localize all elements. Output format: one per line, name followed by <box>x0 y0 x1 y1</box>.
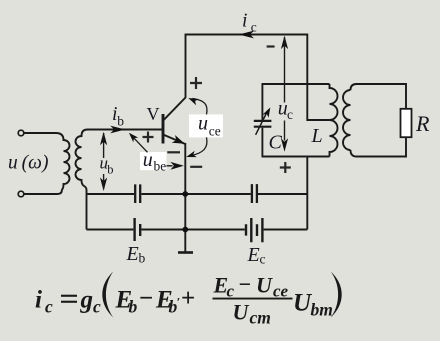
svg-text:b: b <box>117 114 124 129</box>
arrowhead ib (pointing right on base wire) <box>110 126 125 134</box>
svg-text:+: + <box>181 285 195 312</box>
formula left parenthesis <box>102 272 113 318</box>
svg-text:V: V <box>147 104 160 124</box>
capacitor C2 (collector bypass) <box>252 184 257 203</box>
svg-text:b: b <box>107 163 113 177</box>
svg-text:g: g <box>80 287 94 314</box>
wire: emitter down through rails to ground <box>184 143 186 252</box>
svg-text:u (ω): u (ω) <box>8 153 48 174</box>
arrowhead variable capacitor <box>263 107 271 117</box>
svg-text:−: − <box>239 272 252 297</box>
variable capacitor arrow shaft <box>256 111 268 135</box>
transistor Q1 emitter lead <box>163 135 185 145</box>
svg-text:C: C <box>269 132 283 154</box>
transformer T1 primary winding (with input wires) <box>24 133 69 194</box>
svg-text:i: i <box>35 287 42 314</box>
formula: i_c = g_c ( E_b - E_b' + (E_c - U_ce)/U_cm * U_bm ) <box>35 272 342 328</box>
svg-text:c: c <box>260 252 266 267</box>
inductor L winding <box>330 84 338 157</box>
u_ce curved arrow to collector <box>193 98 207 114</box>
transistor Q1 collector lead + top wire + tap wire to L <box>163 35 330 121</box>
u_c annotation line lower <box>284 121 286 141</box>
svg-text:c: c <box>45 297 53 317</box>
battery Ec (two cells) <box>246 218 262 242</box>
transformer T2 secondary winding <box>343 90 350 150</box>
variable capacitor C plates <box>254 121 272 127</box>
transistor Q1 base bar <box>162 114 165 144</box>
arrowhead u_b down <box>100 178 107 192</box>
minus sign at emitter (u_be -) <box>167 151 180 153</box>
svg-text:i: i <box>242 11 247 32</box>
tank box left edge below capacitor C <box>261 128 263 157</box>
plus sign at base (u_be +) <box>143 132 154 143</box>
svg-text:u: u <box>143 149 153 171</box>
fraction bar <box>213 298 293 300</box>
svg-text:L: L <box>311 125 323 147</box>
u_b annotation line upper <box>103 133 105 158</box>
svg-text:u: u <box>198 112 208 134</box>
svg-text:c: c <box>251 20 257 35</box>
transformer T1 secondary winding (with base wire to transistor) <box>76 130 163 230</box>
svg-text:c: c <box>93 297 101 317</box>
tank box left edge above capacitor C <box>261 84 263 120</box>
svg-text:ce: ce <box>209 123 221 138</box>
u_be arrow to base wire shaft <box>132 136 148 153</box>
wire: bottom rail (Eb to Ec) <box>141 229 244 231</box>
tank box top edge <box>262 83 330 85</box>
u_ce curved arrow to emitter <box>191 137 207 155</box>
plus sign below tank (u_c +) <box>280 162 291 173</box>
arrowhead u_be right <box>170 162 183 170</box>
wire: top bias rail (right of C2) <box>258 193 307 195</box>
ground symbol <box>178 251 193 254</box>
svg-text:R: R <box>415 111 430 136</box>
arrowhead u_c down <box>281 138 288 152</box>
wire: bottom rail (left of Eb) <box>87 229 134 231</box>
junction dot at emitter / top rail <box>182 191 188 197</box>
minus sign at top (u_c -) <box>267 45 275 47</box>
wire: top bias rail (left of C1) <box>87 193 135 195</box>
wire: tank bottom to bottom rail <box>306 157 308 230</box>
white label box u_be <box>140 152 167 170</box>
minus sign right of emitter (u_ce -) <box>190 166 202 168</box>
svg-text:′: ′ <box>177 295 181 310</box>
arrowhead u_c up <box>281 36 288 50</box>
tank box bottom edge <box>262 156 330 158</box>
svg-text:be: be <box>154 159 167 174</box>
svg-text:b: b <box>129 297 138 317</box>
svg-text:E: E <box>247 244 260 266</box>
wire: bottom rail (right of Ec) <box>264 229 308 231</box>
arrowhead u_b up <box>100 132 107 146</box>
u_c annotation line upper <box>284 37 286 103</box>
u_be right arrow shaft <box>163 165 173 167</box>
svg-text:bm: bm <box>311 300 333 320</box>
svg-text:U: U <box>256 273 273 298</box>
input terminal top <box>18 130 24 136</box>
svg-text:b: b <box>139 251 146 266</box>
arrowhead u_ce lower <box>186 151 197 157</box>
input terminal bottom <box>18 191 24 197</box>
svg-text:U: U <box>233 300 250 325</box>
svg-text:E: E <box>126 243 139 265</box>
formula right parenthesis <box>331 272 342 318</box>
plus sign at collector (u_ce +) <box>190 77 202 89</box>
capacitor C1 (base bypass) <box>135 184 140 203</box>
battery Eb <box>133 218 135 241</box>
white label box u_ce <box>189 114 223 137</box>
u_b annotation line lower <box>103 174 105 189</box>
wire: top bias rail (C1 to C2) <box>141 193 250 195</box>
junction dot at emitter / bottom rail <box>182 227 188 233</box>
arrowhead u_ce upper <box>188 98 199 105</box>
svg-text:cm: cm <box>250 308 271 328</box>
svg-text:c: c <box>287 107 293 122</box>
arrowhead ic (pointing left on top wire) <box>239 31 254 39</box>
resistor R body <box>401 109 412 137</box>
svg-text:−: − <box>139 285 153 312</box>
transformer T2 secondary bottom lead <box>351 137 407 156</box>
arrowhead u_be upper <box>129 133 138 143</box>
emitter arrowhead <box>172 135 185 144</box>
transformer T2 secondary top lead <box>351 84 407 109</box>
